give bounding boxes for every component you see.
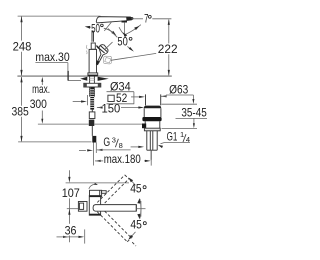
swivel arc lower end xyxy=(128,232,135,240)
svg-text:385: 385 xyxy=(12,104,30,118)
lever tip fan arc xyxy=(119,25,141,37)
countertop deck line xyxy=(17,75,171,77)
extension line hose end xyxy=(18,141,91,143)
svg-text:36: 36 xyxy=(65,224,77,238)
faucet base flange xyxy=(88,73,98,76)
svg-text:45: 45 xyxy=(130,182,142,196)
leader 50-2 upleft xyxy=(108,29,117,38)
label 50 degrees first xyxy=(91,22,103,36)
label G3/8 xyxy=(103,135,122,150)
plan body xyxy=(89,196,100,216)
svg-text:max.30: max.30 xyxy=(35,50,70,64)
drain tailpipe xyxy=(147,131,157,150)
drain gasket xyxy=(142,117,161,121)
dimension max.300 lower arrow xyxy=(41,111,43,124)
label diameter 34 xyxy=(107,80,134,94)
G3/8 leader right xyxy=(131,146,145,148)
label 248 xyxy=(13,39,32,53)
label square 52 xyxy=(107,91,135,105)
svg-text:G: G xyxy=(103,135,110,149)
hose extension lines xyxy=(93,143,96,166)
svg-text:300: 300 xyxy=(30,97,47,111)
drain flange top xyxy=(144,106,161,109)
svg-text:35-45: 35-45 xyxy=(181,105,207,119)
svg-text:max.: max. xyxy=(32,82,50,96)
dimension 385 line xyxy=(20,77,22,142)
svg-text:222: 222 xyxy=(158,42,178,56)
dimension max180 xyxy=(95,150,151,165)
label max.30 xyxy=(35,50,70,64)
countertop bottom edge xyxy=(68,79,81,81)
leader max.30 xyxy=(35,63,68,81)
countertop section right wedge xyxy=(98,77,109,81)
svg-text:107: 107 xyxy=(62,186,80,200)
extension line top lever height xyxy=(18,15,101,17)
leader 50-2 downleft xyxy=(105,42,113,49)
drain neck xyxy=(146,94,161,105)
extension line basin top xyxy=(162,103,198,105)
extension line clamp bottom xyxy=(162,127,198,129)
countertop section left wedge xyxy=(80,77,87,81)
leader 50-2 arrow xyxy=(127,46,133,51)
7 degree reference line xyxy=(131,18,171,20)
bar under lever tip xyxy=(122,21,128,23)
plan dashed spout up xyxy=(97,175,129,207)
pop-up rod line xyxy=(38,123,142,125)
label 36 xyxy=(65,224,77,238)
hose end fitting xyxy=(92,136,96,143)
dimension 222 line xyxy=(168,19,170,76)
ghost marks body top left xyxy=(86,45,87,54)
label max.300 xyxy=(30,82,50,111)
svg-text:52: 52 xyxy=(116,91,128,105)
label max.180 xyxy=(104,152,141,166)
svg-text:7: 7 xyxy=(144,11,149,25)
svg-text:50: 50 xyxy=(91,22,100,36)
dimension 248 line xyxy=(20,16,22,75)
dimension 107 xyxy=(68,170,70,224)
dimension max.300 upper arrow xyxy=(41,77,43,85)
lever open position xyxy=(96,45,108,66)
svg-text:3: 3 xyxy=(112,135,116,144)
drain nut xyxy=(144,128,160,131)
label 385 xyxy=(12,104,30,118)
G3/8 leader left xyxy=(79,149,93,151)
lever stem closed xyxy=(92,31,94,42)
lever tip plumb line xyxy=(123,23,125,37)
G1 1/4 arrow xyxy=(158,143,164,149)
drain body xyxy=(145,121,160,128)
pop-up rod boss xyxy=(142,124,146,129)
dimension 150 arrows xyxy=(97,106,144,108)
plan connector xyxy=(78,202,87,212)
svg-text:248: 248 xyxy=(13,39,32,53)
pop-up rod lower xyxy=(150,150,152,160)
label 150 xyxy=(102,102,121,116)
svg-text:8: 8 xyxy=(119,141,123,150)
dimension 150 left arrow xyxy=(73,95,88,105)
svg-text:50: 50 xyxy=(117,35,128,49)
label 45 degrees upper xyxy=(130,182,146,196)
leader to 222 label xyxy=(111,53,156,60)
cartridge collar xyxy=(91,43,95,49)
label 50 degrees second xyxy=(117,35,132,49)
threaded shank xyxy=(90,76,95,96)
swivel arc middle xyxy=(137,198,141,219)
mounting nut xyxy=(84,83,101,87)
label 222 xyxy=(158,42,178,56)
plan spout centerline xyxy=(67,208,79,210)
drain flange body xyxy=(144,108,161,117)
svg-text:G1: G1 xyxy=(167,129,178,143)
label 35-45 xyxy=(176,105,208,119)
aerator sketch xyxy=(104,56,112,64)
hose lower connector block xyxy=(89,120,95,126)
plan lever swing arc xyxy=(89,183,98,189)
dimension 36 xyxy=(57,229,85,243)
dimension 35-45 upper xyxy=(191,95,195,104)
label 7 degrees xyxy=(144,11,151,25)
svg-text:Ø63: Ø63 xyxy=(169,82,188,96)
svg-text:1: 1 xyxy=(180,130,184,139)
hose upper connector xyxy=(89,112,95,119)
faucet body xyxy=(89,49,96,73)
hose line xyxy=(91,110,93,136)
svg-text:max.180: max.180 xyxy=(104,152,141,166)
diameter 63 pointer arrows xyxy=(131,95,167,98)
plan dashed spout down xyxy=(97,208,136,246)
svg-text:45: 45 xyxy=(130,218,142,232)
swivel arc upper end xyxy=(128,177,135,185)
lever blade raised xyxy=(96,17,133,23)
label 107 xyxy=(62,186,80,200)
threaded stud xyxy=(90,87,94,109)
plan extension line top xyxy=(66,182,129,184)
label G1 1/4 xyxy=(164,129,190,144)
diagonal cross line xyxy=(104,22,111,31)
plan lever xyxy=(90,190,107,197)
label 45 degrees lower xyxy=(130,218,146,232)
plan spout tip cross xyxy=(136,201,145,217)
label diameter 63 xyxy=(166,82,191,96)
swing arc 50-1 right xyxy=(104,28,117,35)
plan spout bar xyxy=(93,205,136,212)
dimension 35-45 lower xyxy=(193,118,195,128)
swing arc 50-1 left arrow xyxy=(85,26,91,29)
G3/8 underline xyxy=(97,149,131,151)
